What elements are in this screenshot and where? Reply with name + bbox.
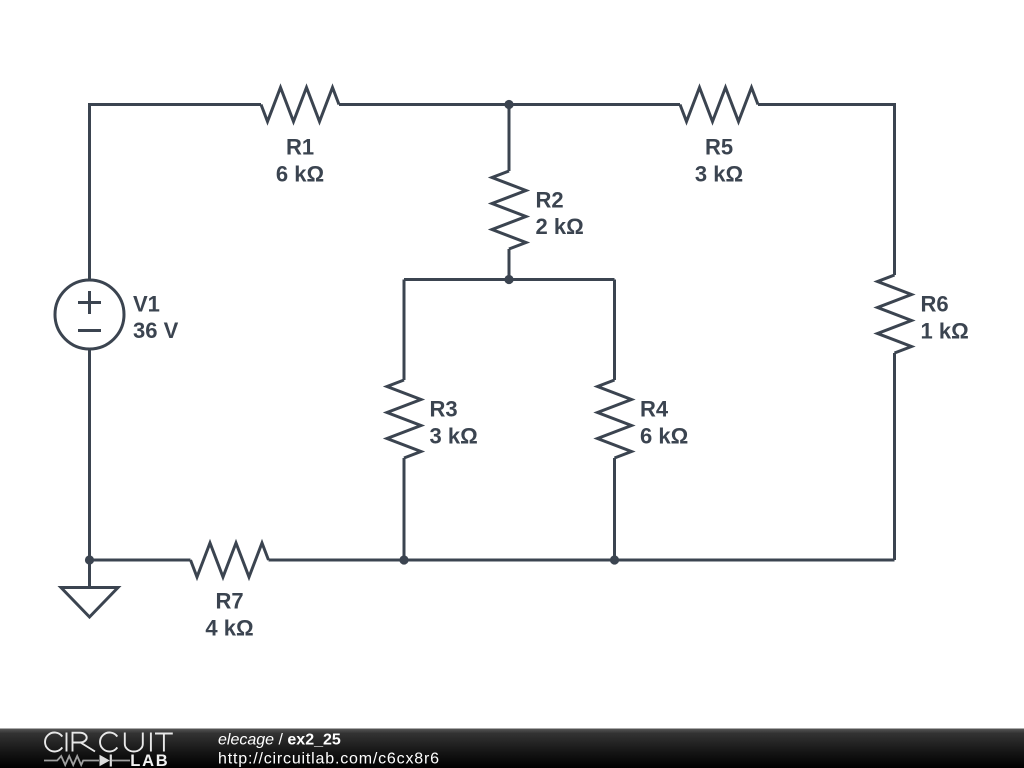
wire: R7 right lead along bottom rail to bottom-right corner [269,559,895,562]
node junction: R4 on bottom rail [610,555,619,564]
footer bar [0,729,1024,768]
node junction B (R2/R3/R4) [504,275,513,284]
svg-text:6 kΩ: 6 kΩ [276,162,324,187]
logo letter I [66,733,68,752]
node junction A (R1/R2/R5) [504,100,513,109]
wire: R6 bottom lead to bottom-right corner [893,353,896,560]
svg-text:R5: R5 [705,135,733,160]
svg-text:V1: V1 [133,291,160,316]
wire: R3 bottom lead [403,458,406,560]
logo letter I [150,733,152,752]
wire: R3 top lead [403,280,406,381]
svg-text:3 kΩ: 3 kΩ [695,162,743,187]
svg-text:1 kΩ: 1 kΩ [921,319,969,344]
logo wire to LAB [112,760,130,762]
logo resistor glyph [44,756,99,765]
resistor R6 [878,275,912,353]
svg-text:6 kΩ: 6 kΩ [640,424,688,449]
logo letter T [155,734,173,752]
svg-text:R1: R1 [286,135,314,160]
logo letter C [100,733,117,752]
wire: R2 top lead from node A [508,105,511,172]
resistor R3 [387,380,421,458]
wire: R1 to R5 through node A [339,103,680,106]
resistor R1 [261,88,339,122]
svg-text:R2: R2 [536,187,564,212]
svg-text:36 V: 36 V [133,318,179,343]
svg-text:R7: R7 [215,589,243,614]
wire: R4 top lead [613,280,616,381]
resistor R4 [598,380,632,458]
logo letter U [125,733,143,752]
wire: node B horizontal rail to R3 and R4 [404,278,615,281]
svg-text:elecage / ex2_25: elecage / ex2_25 [218,732,341,749]
svg-text:R4: R4 [640,397,669,422]
svg-text:R6: R6 [921,292,949,317]
logo letter R [73,733,96,752]
ground [61,560,118,617]
node junction: R3 on bottom rail [399,555,408,564]
logo diode glyph [100,755,110,766]
wire: R4 bottom lead [613,458,616,560]
logo letter C [45,733,62,752]
svg-text:3 kΩ: 3 kΩ [430,424,478,449]
wire: V1 top to R1 left lead [90,105,262,280]
V1 plus sign [78,291,101,314]
wire: R5 to top-right corner down to R6 top lead [758,105,895,276]
svg-text:2 kΩ: 2 kΩ [536,214,584,239]
resistor R5 [680,88,758,122]
svg-text:R3: R3 [430,397,458,422]
voltage source V1 circle [55,280,124,349]
resistor R7 [191,543,269,577]
V1 minus sign [78,329,101,332]
svg-text:LAB: LAB [130,752,169,768]
svg-text:http://circuitlab.com/c6cx8r6: http://circuitlab.com/c6cx8r6 [218,750,439,767]
wire: R2 bottom lead to node B [508,249,511,280]
node junction: ground tap on bottom rail [85,555,94,564]
logo diode cathode bar [110,755,112,767]
wire: ground node to R7 left lead [90,559,191,562]
wire: V1 bottom to ground node [88,350,91,561]
resistor R2 [492,171,526,249]
svg-text:4 kΩ: 4 kΩ [205,616,253,641]
